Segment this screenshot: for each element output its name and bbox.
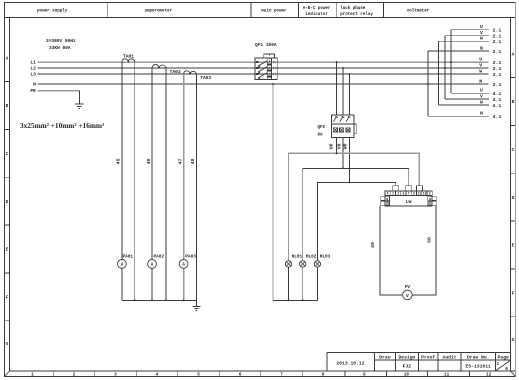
wire U0 from QF2	[336, 138, 338, 154]
svg-text:luck phase: luck phase	[340, 6, 366, 11]
svg-text:U0: U0	[328, 143, 334, 149]
lack phase relay LW	[381, 186, 436, 206]
corner bevel bottom-left	[4, 371, 9, 376]
svg-text:49: 49	[370, 242, 376, 248]
junction dot riser U on L1	[450, 61, 452, 63]
QF2 pole 2 blade	[340, 116, 345, 122]
page cell diagonal	[496, 360, 511, 370]
left border zone ticks	[4, 81, 9, 83]
svg-text:HL03: HL03	[320, 255, 331, 260]
junction dot U0 on line A	[336, 152, 338, 154]
svg-text:7: 7	[280, 372, 283, 377]
QF1 pole L1 contact and blade	[256, 61, 267, 68]
indicator lamp HL02	[300, 255, 317, 267]
svg-text:PA01: PA01	[123, 255, 134, 260]
LW top terminal cap 1	[393, 186, 399, 191]
svg-text:2.1: 2.1	[493, 34, 502, 40]
stub W 2.1	[439, 40, 490, 42]
node line A (phase U0 distribution)	[289, 153, 420, 261]
LW terminal numbers	[387, 192, 431, 196]
svg-text:9: 9	[363, 372, 366, 377]
wire PE drop to ground	[78, 91, 80, 105]
svg-text:46: 46	[146, 158, 152, 164]
bus L2	[37, 67, 488, 69]
svg-text:V: V	[406, 293, 409, 299]
header divider 3	[298, 2, 300, 17]
svg-text:4.1: 4.1	[493, 97, 502, 103]
svg-text:C: C	[512, 148, 515, 153]
circuit breaker QF1	[255, 42, 277, 80]
svg-text:3.1: 3.1	[493, 72, 502, 78]
wire to ground	[195, 300, 197, 306]
QF2 pole 1 blade	[333, 116, 338, 122]
LW terminal strip row	[385, 191, 432, 196]
svg-text:1: 1	[31, 372, 34, 377]
svg-text:V: V	[480, 94, 483, 100]
svg-text:main power: main power	[261, 9, 287, 14]
QF1 top tab	[264, 54, 275, 58]
QF1 linkage columns	[266, 58, 268, 79]
svg-text:33KW 80A: 33KW 80A	[49, 45, 71, 51]
junction dot W0 on line C	[348, 181, 350, 183]
svg-text:6: 6	[505, 366, 508, 372]
LW left side terminal hatched	[385, 201, 390, 205]
wire L3 tap to QF2	[348, 74, 350, 115]
LW top terminal cap 3	[416, 186, 422, 191]
svg-text:indicator: indicator	[305, 12, 328, 17]
bus L3	[37, 73, 488, 75]
LW left side terminal N	[385, 196, 390, 200]
svg-text:L2: L2	[30, 66, 36, 72]
QF2 thermal terminals row	[333, 128, 350, 132]
current transformer TA03	[184, 71, 197, 74]
stub V 2.1	[445, 35, 489, 37]
ammeter common bus wire	[122, 299, 196, 301]
svg-text:W0: W0	[343, 143, 349, 149]
wire L2 tap to QF2	[342, 68, 344, 115]
stub W 4.1	[439, 104, 490, 106]
svg-text:13: 13	[423, 192, 427, 196]
header strip bottom line	[4, 17, 515, 19]
wire LW right to voltmeter	[413, 206, 436, 295]
riser V (x=444.8)	[444, 36, 446, 99]
svg-text:Draw No.: Draw No.	[467, 354, 490, 360]
junction dot TA01	[127, 60, 129, 62]
svg-text:U: U	[480, 24, 483, 30]
svg-text:N: N	[480, 111, 483, 117]
LW body box	[385, 196, 432, 206]
svg-text:45: 45	[115, 158, 121, 164]
svg-text:C: C	[6, 152, 9, 157]
wire TA02 secondary a (46)	[151, 68, 153, 300]
svg-text:F: F	[6, 296, 9, 301]
ammeter PA03	[179, 255, 196, 269]
svg-text:10: 10	[404, 372, 410, 377]
svg-text:PA03: PA03	[185, 255, 196, 260]
junction dot TA02	[158, 66, 160, 68]
svg-text:A: A	[151, 263, 154, 268]
svg-text:2.1: 2.1	[493, 49, 502, 55]
svg-text:11: 11	[417, 192, 421, 196]
svg-text:6: 6	[239, 372, 242, 377]
svg-text:3.1: 3.1	[493, 82, 502, 88]
QF1 thermal element L3	[267, 75, 271, 77]
stub N 4.1	[428, 115, 489, 117]
svg-text:4: 4	[156, 372, 159, 377]
svg-text:Audit: Audit	[443, 354, 457, 360]
current transformer TA02	[152, 65, 166, 69]
junction dot lamp bus 1	[288, 299, 290, 301]
svg-text:11: 11	[444, 372, 450, 377]
junction dot L1 tap	[336, 61, 338, 63]
svg-text:3×380V 60Hz: 3×380V 60Hz	[46, 38, 76, 44]
svg-text:A: A	[512, 52, 515, 57]
svg-text:2.1: 2.1	[493, 39, 502, 45]
svg-text:Proof: Proof	[421, 354, 435, 360]
svg-text:N: N	[386, 197, 388, 201]
header divider 4	[335, 2, 337, 17]
bottom border zone ticks	[52, 371, 54, 376]
svg-text:Design: Design	[398, 354, 415, 360]
wire lamp HL03 bottom	[316, 267, 318, 301]
wire W0 from QF2	[348, 138, 350, 182]
right border zone ticks	[511, 77, 516, 79]
svg-text:48: 48	[190, 158, 196, 164]
svg-text:12: 12	[486, 372, 492, 377]
svg-text:TA03: TA03	[200, 75, 211, 81]
circuit breaker QF2	[318, 115, 357, 138]
LW left tabs	[381, 197, 385, 201]
bus L1	[37, 61, 488, 63]
svg-text:amperometer: amperometer	[144, 10, 172, 14]
junction dot riser W on L3	[438, 73, 440, 75]
stub N 2.1	[428, 50, 489, 52]
svg-text:V0: V0	[336, 143, 342, 149]
svg-text:3: 3	[397, 192, 399, 196]
QF2 pole 3 blade	[346, 116, 351, 122]
QF1 trip linkage dashed	[268, 55, 270, 79]
svg-text:voltmeter: voltmeter	[407, 9, 430, 14]
junction dot riser V on L2	[444, 67, 446, 69]
header divider 2	[250, 2, 252, 17]
header divider 5	[383, 2, 385, 17]
svg-text:LW: LW	[406, 199, 412, 205]
voltmeter PV	[403, 285, 413, 300]
title block column dividers	[373, 353, 375, 371]
junction dots on ammeter bus	[134, 299, 185, 301]
junction dot L3 tap	[348, 73, 350, 75]
stub U 2.1	[451, 29, 489, 31]
QF2 extension bar	[354, 124, 356, 134]
svg-text:E: E	[6, 248, 9, 253]
ammeter PA01	[118, 255, 134, 269]
inner drawing frame bottom border	[10, 370, 516, 372]
svg-text:TA01: TA01	[123, 53, 134, 59]
node line C (phase W0 distribution)	[317, 182, 395, 261]
junction dot lamp bus 2	[302, 299, 304, 301]
svg-text:L3: L3	[30, 72, 36, 78]
svg-text:HL02: HL02	[306, 255, 317, 260]
svg-text:2: 2	[73, 372, 76, 377]
svg-text:50: 50	[426, 237, 432, 243]
wire TA01 secondary b	[134, 62, 136, 300]
QF1 pole L3 contact and blade	[256, 73, 267, 80]
node line B (phase V0 distribution)	[303, 168, 409, 261]
svg-text:6A: 6A	[318, 134, 324, 138]
wire LW left to voltmeter	[380, 206, 402, 295]
bus PE	[37, 90, 79, 92]
current transformer TA01	[122, 59, 135, 62]
wire TA03 secondary b (48)	[195, 74, 197, 300]
QF1 box	[255, 58, 277, 79]
svg-text:B: B	[6, 104, 9, 109]
svg-text:4: 4	[387, 192, 389, 196]
svg-text:Page: Page	[498, 354, 509, 360]
svg-text:G: G	[512, 338, 515, 343]
wire TA03 secondary a (47)	[183, 74, 185, 300]
svg-text:8: 8	[322, 372, 325, 377]
inner drawing frame right border	[510, 18, 512, 372]
svg-text:2: 2	[429, 192, 431, 196]
svg-text:QF1 100A: QF1 100A	[255, 42, 277, 48]
svg-text:1: 1	[392, 192, 394, 196]
svg-text:4.1: 4.1	[493, 114, 502, 120]
ground symbol PE	[75, 104, 84, 108]
svg-text:N: N	[480, 45, 483, 51]
header divider 1	[107, 2, 109, 17]
riser N (x=428)	[427, 51, 429, 116]
svg-text:4.1: 4.1	[493, 91, 502, 97]
svg-text:E: E	[512, 244, 515, 249]
inner drawing frame left border	[9, 18, 11, 372]
indicator lamp HL03	[314, 255, 330, 267]
svg-text:N: N	[479, 79, 482, 85]
svg-text:protect relay: protect relay	[340, 12, 373, 17]
wire N drop	[272, 84, 274, 300]
wire TA02 secondary b	[165, 68, 167, 300]
svg-text:2.1: 2.1	[493, 28, 502, 34]
wire lamp HL02 bottom	[302, 267, 304, 301]
LW right side terminal N	[428, 196, 433, 200]
lamp bottom bus wire	[273, 299, 317, 301]
wire TA01 secondary a (45)	[121, 62, 123, 300]
svg-text:A: A	[121, 263, 124, 268]
svg-text:47: 47	[177, 158, 183, 164]
svg-text:PE: PE	[30, 88, 36, 94]
svg-text:7: 7	[408, 192, 410, 196]
QF1 right terminal marks	[273, 61, 276, 76]
svg-text:PV: PV	[405, 285, 411, 290]
svg-text:9: 9	[413, 192, 415, 196]
QF1 thermal element L2	[267, 69, 271, 71]
svg-text:G: G	[6, 342, 9, 347]
svg-text:5: 5	[402, 192, 404, 196]
svg-text:U: U	[479, 57, 482, 63]
svg-text:D: D	[512, 196, 515, 201]
svg-text:HL01: HL01	[292, 255, 303, 260]
QF1 pole L2 contact and blade	[256, 67, 267, 74]
svg-text:3: 3	[114, 372, 117, 377]
svg-text:W: W	[480, 36, 483, 42]
QF1 thermal element L1	[267, 63, 271, 65]
svg-text:A-B-C power: A-B-C power	[303, 7, 331, 11]
svg-text:V: V	[480, 30, 483, 36]
indicator lamp HL01	[285, 255, 302, 267]
svg-text:A: A	[182, 263, 185, 268]
svg-text:1: 1	[496, 361, 499, 367]
junction dot V0 on line B	[342, 167, 344, 169]
stub U 4.1	[451, 92, 489, 94]
riser U (x=450.8)	[450, 30, 452, 93]
svg-text:TA02: TA02	[170, 69, 181, 75]
wire L1 tap to QF2	[336, 62, 338, 115]
QF2 box	[332, 115, 354, 138]
corner bevel bottom-right	[511, 371, 516, 376]
wire lamp HL01 bottom	[288, 267, 290, 301]
svg-text:5: 5	[197, 372, 200, 377]
svg-text:ES-131011: ES-131011	[466, 363, 492, 369]
junction dot TA03	[189, 72, 191, 74]
ground symbol ammeter bus	[192, 307, 200, 311]
svg-text:Draw: Draw	[379, 354, 390, 360]
title block middle horizontal	[374, 359, 510, 361]
svg-text:3.1: 3.1	[493, 60, 502, 66]
svg-text:FJZ: FJZ	[403, 363, 412, 369]
svg-text:2013.10.12: 2013.10.12	[336, 361, 364, 367]
stub V 4.1	[445, 98, 489, 100]
svg-text:3x25mm² +10mm² +16mm²: 3x25mm² +10mm² +16mm²	[20, 121, 105, 130]
LW right side terminal hatched	[428, 201, 433, 205]
LW top terminal cap 2	[406, 186, 412, 191]
svg-text:N: N	[33, 82, 36, 88]
LW right tabs	[432, 197, 436, 201]
bus N	[37, 83, 488, 85]
junction dot L2 tap	[342, 67, 344, 69]
ammeter PA02	[148, 255, 165, 269]
svg-text:N: N	[429, 197, 431, 201]
svg-text:3.1: 3.1	[493, 66, 502, 72]
svg-text:V: V	[479, 63, 482, 69]
riser W (x=438.5)	[438, 41, 440, 105]
svg-text:L1: L1	[30, 60, 36, 66]
svg-text:A: A	[6, 56, 9, 61]
svg-text:W: W	[479, 69, 482, 75]
svg-text:D: D	[6, 200, 9, 205]
svg-text:QF2: QF2	[318, 126, 326, 130]
svg-text:W: W	[480, 99, 483, 105]
title block outline	[327, 352, 511, 354]
junction dot riser N on N	[427, 83, 429, 85]
svg-text:F: F	[512, 292, 515, 297]
svg-text:4.1: 4.1	[493, 103, 502, 109]
wire V0 from QF2	[342, 138, 344, 169]
svg-text:power supply: power supply	[37, 9, 68, 14]
svg-text:B: B	[512, 100, 515, 105]
svg-text:PA02: PA02	[154, 255, 165, 260]
junction dot N drop	[272, 83, 274, 85]
svg-text:U: U	[480, 88, 483, 94]
